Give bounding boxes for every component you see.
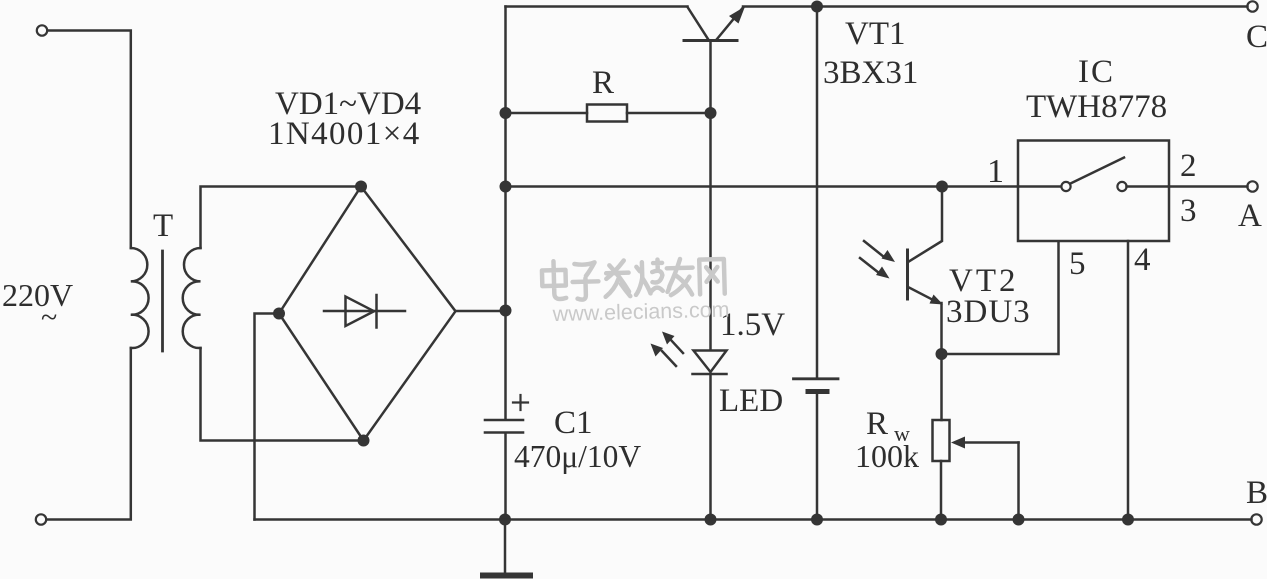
svg-text:1.5V: 1.5V [720, 307, 785, 343]
node: ground junction [499, 514, 511, 526]
node: R left junction [500, 107, 512, 119]
wire: secondary to bridge AC bottom [201, 348, 359, 441]
svg-text:4: 4 [1134, 242, 1151, 278]
svg-text:3: 3 [1180, 193, 1197, 229]
transistor VT1 [684, 7, 745, 41]
transformer T core [161, 251, 164, 351]
node: Rw bottom junction [935, 514, 947, 526]
wire: +V rail vertical [504, 7, 507, 420]
node: R right junction [705, 107, 717, 119]
LED [693, 351, 727, 520]
terminal B [1251, 514, 1261, 524]
resistor R [506, 105, 711, 122]
switch inside IC [1018, 158, 1169, 192]
svg-text:T: T [153, 208, 173, 244]
svg-text:~: ~ [41, 301, 57, 334]
node: rail at VT2 [936, 181, 948, 193]
transformer T primary winding [131, 248, 149, 348]
node: bridge AC top junction [355, 181, 367, 193]
svg-text:www.elecians.com: www.elecians.com [551, 297, 729, 326]
node: rail at +V [500, 181, 512, 193]
label + [513, 395, 528, 410]
wire: regulated rail to IC pin 1 [506, 185, 1019, 188]
wire: C1 to ground rail [504, 433, 507, 520]
svg-text:1: 1 [987, 153, 1004, 190]
wire: bridge plus to +V rail [456, 310, 506, 313]
wire: top rail right [743, 5, 1248, 8]
svg-text:100k: 100k [855, 438, 919, 474]
svg-text:3DU3: 3DU3 [946, 294, 1031, 330]
svg-text:VT1: VT1 [845, 16, 906, 52]
wire: VT1 base to LED [709, 41, 712, 351]
wire: ground rail bottom [255, 518, 1252, 521]
VT2 light arrows [860, 241, 895, 279]
terminal C [1247, 1, 1257, 11]
wire: top rail left [506, 5, 688, 8]
capacitor C1 [485, 420, 523, 433]
svg-text:C: C [1246, 19, 1267, 55]
phototransistor VT2 [908, 187, 944, 355]
svg-text:R: R [592, 65, 614, 101]
wire: emitter node to IC pin 5 [942, 242, 1059, 354]
wire: pin 4 [1127, 241, 1130, 520]
node: pin 4 bottom junction [1122, 514, 1134, 526]
wire: battery bottom lead [816, 394, 819, 520]
node: wiper bottom junction [1013, 514, 1025, 526]
svg-text:470μ/10V: 470μ/10V [514, 439, 641, 474]
node: battery top junction [811, 1, 823, 13]
bridge rectifier VD1~VD4 [279, 187, 456, 441]
terminal: mains input top [37, 25, 47, 35]
svg-text:LED: LED [719, 383, 783, 419]
transformer T secondary winding [183, 248, 201, 348]
node: +V rail at bridge [500, 305, 512, 317]
svg-text:R: R [866, 406, 888, 442]
potentiometer Rw [933, 420, 1019, 520]
svg-text:220V: 220V [2, 277, 73, 313]
wire: bridge minus to ground rail [255, 314, 280, 520]
svg-text:IC: IC [1078, 54, 1115, 90]
watermark [542, 257, 730, 327]
svg-text:1N4001×4: 1N4001×4 [268, 116, 421, 152]
svg-text:5: 5 [1069, 246, 1086, 282]
node: bridge AC bottom junction [358, 435, 370, 447]
ground [483, 520, 530, 576]
wire: emitter node to Rw [940, 354, 943, 420]
node: bridge DC minus junction [273, 308, 285, 320]
diode symbol inside bridge [324, 295, 405, 328]
LED light arrows [651, 332, 684, 367]
node: VT2 emitter junction [936, 348, 948, 360]
wire: battery top lead [816, 7, 819, 378]
battery E [794, 379, 839, 392]
wire: mains top lead [48, 31, 131, 249]
node: battery bottom junction [811, 514, 823, 526]
svg-text:C1: C1 [554, 405, 593, 441]
terminal: mains input bottom [36, 514, 46, 524]
svg-text:B: B [1246, 475, 1267, 511]
wire: pin 2 to terminal A [1169, 185, 1248, 188]
svg-text:TWH8778: TWH8778 [1026, 89, 1167, 125]
svg-text:3BX31: 3BX31 [823, 55, 918, 91]
terminal A [1247, 181, 1257, 191]
svg-text:2: 2 [1180, 148, 1197, 184]
node: LED bottom junction [705, 514, 717, 526]
IC TWH8778 box [1018, 141, 1169, 242]
wire: secondary to bridge AC top [201, 187, 357, 249]
svg-text:A: A [1238, 198, 1262, 234]
wire: mains bottom lead [47, 348, 131, 520]
